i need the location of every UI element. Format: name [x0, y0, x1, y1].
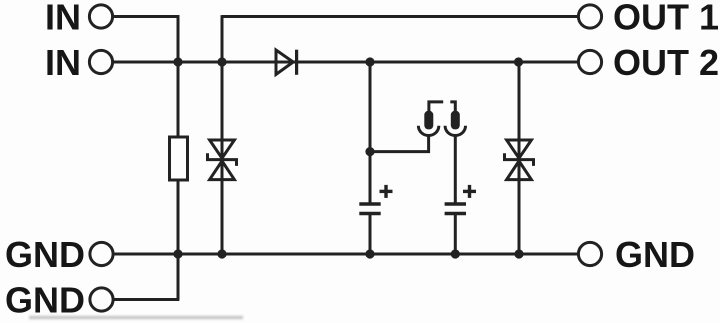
plug contact left: socket cup	[418, 126, 438, 136]
junction node (518.5,62)	[514, 57, 523, 66]
capacitor C1 plates	[359, 204, 380, 214]
wire GND2 horizontal	[115, 298, 180, 301]
junction node (178,254)	[173, 249, 182, 258]
svg-text:IN: IN	[45, 42, 81, 83]
terminal circle IN 2	[89, 50, 112, 73]
wire right plug cup to capacitor C2	[454, 136, 457, 202]
svg-text:GND: GND	[5, 234, 85, 275]
junction node (222,62)	[217, 57, 226, 66]
wire vertical x=222 through TVS1	[221, 15, 224, 254]
plug contact right: socket cup	[445, 126, 465, 136]
resistor R1	[170, 137, 188, 180]
svg-text:OUT 2: OUT 2	[613, 42, 719, 83]
terminal circle GND right	[578, 242, 601, 265]
TVS suppressor diode right	[505, 140, 534, 180]
wire top rail OUT1	[222, 15, 577, 18]
terminal circle IN 1	[89, 5, 112, 28]
plug contact right: pin	[450, 102, 460, 130]
terminal circle OUT 1	[578, 5, 601, 28]
svg-text:OUT 1: OUT 1	[613, 0, 719, 38]
wire capacitor C1 bottom to GND rail	[369, 215, 372, 254]
junction node (370,151.6)	[365, 147, 374, 156]
wire capacitor C2 bottom to GND rail	[454, 215, 457, 254]
terminal circle GND left lower	[90, 288, 113, 311]
junction node (455.3,254)	[451, 249, 460, 258]
wire GND rail	[114, 253, 577, 256]
wire vertical x=519 row2 through TVS2 to GND rail	[518, 62, 521, 254]
terminal circle OUT 2	[578, 50, 601, 73]
wire resistor bottom to GND2 corner	[177, 180, 180, 300]
plug contact left: pin	[424, 102, 443, 130]
TVS suppressor diode left	[208, 140, 237, 180]
junction node (178,62)	[173, 57, 182, 66]
wire vertical x=370 row2 to capacitor C1	[369, 62, 372, 203]
junction node (519,254)	[514, 249, 523, 258]
junction node (370,254)	[365, 249, 374, 258]
wire row 2 IN2 to OUT2	[114, 61, 577, 64]
junction node (222,254)	[217, 249, 226, 258]
diode D1	[276, 50, 297, 75]
capacitor C1 polarity plus	[380, 185, 393, 198]
wire branch node(370,151.6) to left plug cup	[370, 136, 429, 151]
junction node (370,62)	[365, 57, 374, 66]
terminal circle GND left upper	[90, 242, 113, 265]
capacitor C2 polarity plus	[463, 185, 476, 198]
wire IN1 to node at x=178, vertical trunk down left side	[114, 17, 178, 138]
svg-text:GND: GND	[615, 234, 695, 275]
svg-text:IN: IN	[45, 0, 81, 38]
svg-text:GND: GND	[5, 280, 85, 321]
capacitor C2 plates	[445, 204, 466, 214]
